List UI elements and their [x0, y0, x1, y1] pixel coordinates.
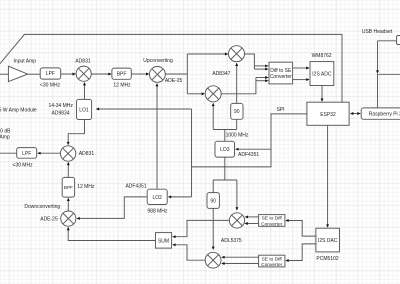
svg-text:SE to Diff: SE to Diff [262, 256, 283, 262]
svg-text:ADL5375: ADL5375 [221, 238, 242, 244]
filter BPF2 (12 MHz) [62, 177, 74, 197]
mixer AD8347 Q (bottom) [205, 86, 221, 102]
wire: SPI branch to LO3 [238, 148, 271, 150]
wire: SE to Diff 1 to ADL5375 I mixer (differential pair) [248, 216, 259, 218]
svg-text:LO3: LO3 [220, 147, 230, 153]
wire: ADL5375 Q mixer to SUM [175, 245, 205, 260]
svg-text:USB Headset: USB Headset [362, 29, 393, 35]
filter LPF1 (<30 MHz) [40, 68, 61, 79]
wire: BPF2 up to AD831 RX mixer [67, 165, 69, 178]
wire: I2S DAC to SE to Diff converter 1 [288, 221, 316, 237]
mixer ADL5375 I (upper) [229, 213, 244, 228]
ADC: I2S ADC (WM8762) [310, 62, 334, 86]
svg-text:LPF: LPF [22, 151, 31, 157]
svg-text:90: 90 [210, 198, 216, 204]
svg-text:Converter: Converter [261, 221, 282, 227]
DAC: I2S DAC (PCM5102) [316, 228, 340, 252]
svg-text:SPI: SPI [276, 107, 284, 113]
filter BPF1 (12 MHz) [112, 68, 131, 79]
svg-text:WM8762: WM8762 [312, 53, 332, 59]
svg-text:Converter: Converter [261, 262, 282, 268]
wire: USB headset link down to audio line [378, 40, 397, 42]
svg-text:I2S DAC: I2S DAC [318, 238, 338, 244]
svg-text:90: 90 [234, 109, 240, 115]
wire: I2S ADC down to ESP32 [321, 86, 323, 99]
wire: antenna feed line (diagonal at top-left, across top, down into ESP32) [0, 34, 342, 102]
svg-text:Converter: Converter [270, 74, 292, 80]
adder: SUM block [156, 233, 172, 249]
wire: SUM to downconverting mixer [68, 230, 155, 241]
svg-text:Raspberry Pi 3: Raspberry Pi 3 [369, 111, 400, 117]
wire: AD831 to BPF1 [91, 73, 108, 75]
phase shifter 90 (AD8347 LO path) [231, 103, 243, 119]
node: USB headset box fragment at right edge [397, 36, 400, 45]
svg-text:12 MHz: 12 MHz [77, 184, 95, 190]
svg-text:1000 MHz: 1000 MHz [226, 132, 249, 138]
svg-text:LPF: LPF [46, 71, 55, 77]
converter: Diff to SE Converter [269, 62, 293, 84]
mixer AD831 (first mixer, top chain) [76, 66, 91, 81]
svg-text:BPF: BPF [117, 71, 127, 77]
wire: Input Amp to LPF1 [28, 73, 41, 75]
mixer ADL5375 Q (lower) [205, 252, 221, 268]
svg-text:<30 MHz: <30 MHz [40, 82, 61, 88]
wire: upconverting mixer out, split to AD8347 I and Q mixers [165, 73, 187, 75]
svg-text:Downconverting: Downconverting [24, 204, 60, 210]
wire: SE to Diff 2 to ADL5375 Q mixer (differential pair) [224, 256, 258, 258]
svg-text:ADE-25: ADE-25 [165, 78, 183, 84]
phase shifter 90 (ADL5375 LO path) [207, 193, 219, 209]
svg-text:I2S ADC: I2S ADC [312, 71, 332, 77]
wire: 90 block to I mixer LO [236, 66, 238, 104]
svg-text:LO1: LO1 [79, 108, 89, 114]
wire: ADL5375 I mixer to SUM [175, 220, 229, 236]
wire: LO1 up to AD831 TX mixer LO [84, 85, 86, 99]
wire: I2S DAC to SE to Diff converter 2 [288, 244, 316, 261]
svg-text:AD8347: AD8347 [212, 71, 230, 77]
wire: LPF1 to mixer AD831 (TX IF) [61, 73, 73, 75]
svg-text:988 MHz: 988 MHz [147, 208, 168, 214]
wire: SPI bus from ESP32 to LO1/LO2/LO3 [192, 114, 307, 167]
SBC: Raspberry Pi 3 (cut at right edge) [361, 108, 400, 119]
mixer AD8347 I (top) [229, 46, 245, 62]
svg-text:AD831: AD831 [75, 58, 91, 64]
svg-text:Upconverting: Upconverting [143, 58, 173, 64]
mixer ADE-25 downconverting [61, 211, 76, 226]
wire: input to Input Amp from left edge [0, 73, 8, 75]
oscillator LO2 (ADF4351, 988 MHz) [147, 189, 167, 204]
wire: Q mixer out to Diff to SE converter (differential pair) [221, 78, 256, 94]
wire: ESP32 down to I2S DAC [327, 125, 329, 225]
svg-text:<30 MHz: <30 MHz [12, 163, 33, 169]
MCU: ESP32 [307, 102, 349, 125]
mixer AD831 (RX, bottom-left) [60, 146, 75, 161]
wire: LO2 up to upconverting mixer LO [156, 86, 158, 189]
svg-text:12 MHz: 12 MHz [113, 82, 131, 88]
svg-text:5 W Amp Module: 5 W Amp Module [0, 107, 37, 113]
mixer ADE-25 upconverting [150, 67, 166, 83]
wire: downconverting mixer up to BPF2 [67, 201, 69, 211]
wire: ESP32 to Raspberry Pi (double arrow) [353, 113, 357, 115]
op-amp U? Input Amp triangle [8, 66, 27, 81]
oscillator LO3 (ADF4351, 1000 MHz) [215, 141, 235, 157]
svg-text:LO2: LO2 [152, 195, 162, 201]
svg-text:AD9834: AD9834 [52, 111, 70, 117]
svg-text:Amp: Amp [0, 135, 10, 141]
oscillator LO1 (AD9834) [77, 99, 92, 119]
filter LPF2 (<30 MHz) [17, 148, 37, 159]
wire: BPF1 to upconverting mixer [131, 73, 146, 75]
svg-text:14-34 MHz: 14-34 MHz [48, 103, 73, 109]
svg-text:ADE-25: ADE-25 [40, 217, 58, 223]
wire: LO3 up to AD8347 LO split [224, 130, 226, 142]
converter: SE to Diff Converter 2 [259, 255, 285, 267]
wire: Raspberry Pi up and out right edge [378, 74, 400, 108]
wire: LO3 down to ADL5375 LO split [224, 157, 226, 180]
svg-text:SUM: SUM [158, 238, 169, 244]
svg-text:ADF4351: ADF4351 [125, 184, 146, 190]
svg-text:ESP32: ESP32 [320, 112, 336, 118]
wire: AD831 RX mixer to LPF2 [40, 152, 60, 154]
wire: LPF2 out to left edge [0, 152, 17, 154]
wire: LO1 down to AD831 RX mixer LO [68, 120, 84, 143]
svg-text:Input Amp: Input Amp [14, 59, 37, 65]
svg-text:PCM5102: PCM5102 [316, 256, 338, 262]
wire: I mixer out to Diff to SE converter (differential pair) [245, 54, 255, 69]
svg-text:ADF4351: ADF4351 [238, 152, 259, 158]
svg-text:BPF: BPF [64, 185, 73, 190]
svg-text:SE to Diff: SE to Diff [262, 216, 283, 222]
svg-text:AD831: AD831 [79, 151, 95, 157]
wire: 90 block down to Q mixer LO [212, 208, 214, 247]
wire: LO2 to downconverting mixer [79, 197, 147, 219]
converter: SE to Diff Converter 1 [259, 215, 285, 227]
wire: Diff to SE converter to I2S ADC (2 lines) [293, 67, 307, 69]
